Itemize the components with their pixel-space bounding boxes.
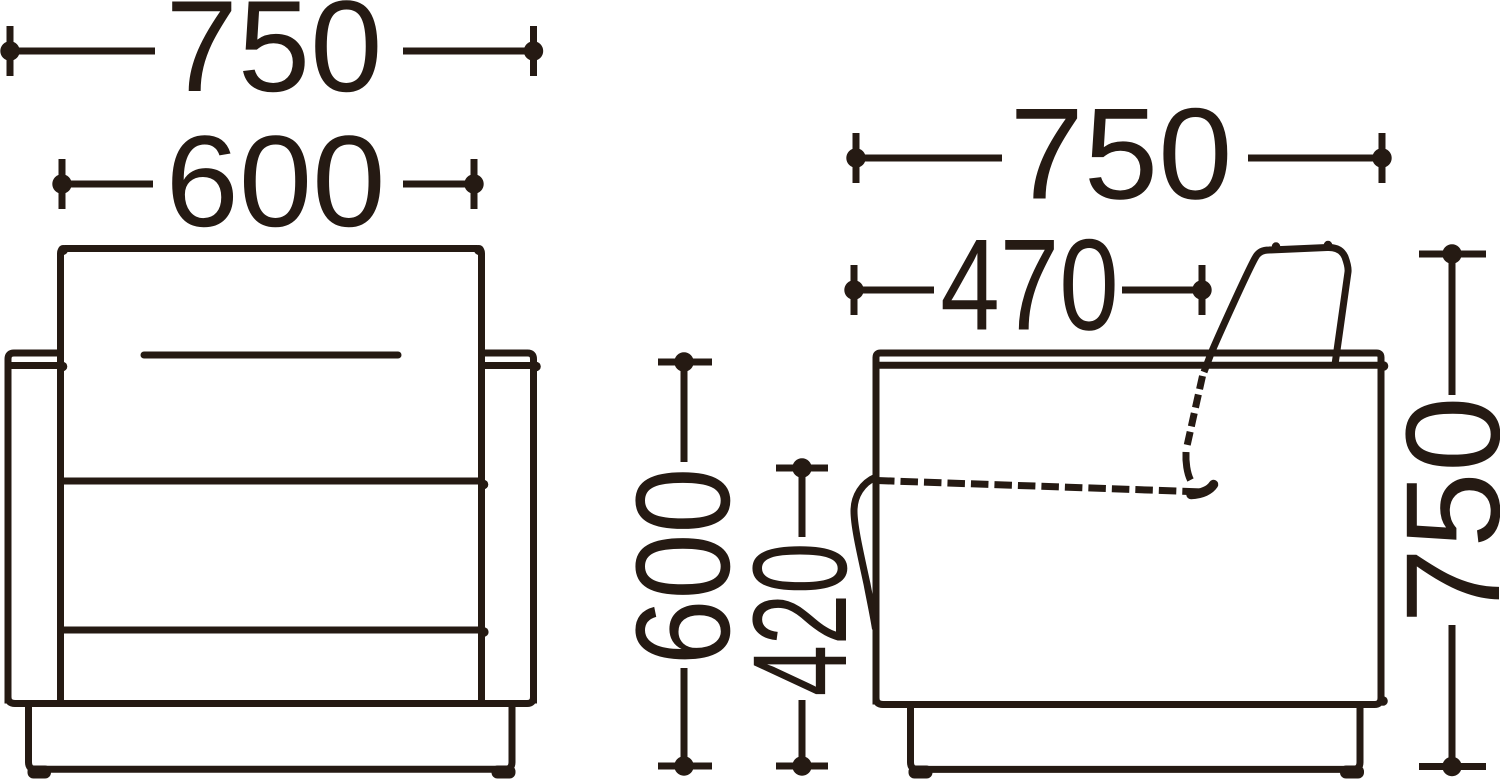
- dimension line 470: right tick: [1199, 265, 1206, 315]
- dimension line 750 side: right tick: [1379, 133, 1386, 183]
- side view body outline: [876, 353, 1381, 705]
- front view front rail line: [61, 627, 482, 634]
- front view backrest corner dot left: [58, 245, 68, 255]
- front view right armrest lower line: [482, 362, 534, 369]
- dimension line 600: left dot: [52, 174, 71, 193]
- vertical dimension 750 height: lower segment: [1449, 625, 1456, 767]
- vertical dimension 750 overall height: top tick: [1419, 251, 1486, 258]
- dimension line 750 front: right segment: [403, 48, 534, 55]
- front view seat top line: [61, 478, 482, 485]
- dimension line 750 front overall width: left tick: [7, 26, 14, 76]
- front view backrest corner dot right: [474, 245, 484, 255]
- side view body lower top line: [877, 362, 1381, 369]
- side view cushion hidden edge dashed: [1187, 376, 1203, 446]
- dimension line 470: right segment: [1122, 287, 1202, 294]
- vertical dimension 600: upper segment: [681, 362, 688, 462]
- side view bottom line: [876, 698, 1381, 705]
- dimension line 600: left segment: [62, 181, 153, 188]
- svg-text:750: 750: [1379, 396, 1500, 623]
- dimension line 470: left segment: [854, 287, 934, 294]
- dimension line 470: right dot: [1192, 280, 1211, 299]
- dimension line 750 side depth: left tick: [853, 133, 860, 183]
- svg-text:470: 470: [940, 212, 1119, 358]
- dimension line 750 side: right dot: [1372, 148, 1391, 167]
- vertical dimension 750 height: top dot: [1442, 244, 1461, 263]
- dimension line 470 seat depth: left tick: [851, 265, 858, 315]
- vertical dimension 420: top dot: [792, 458, 811, 477]
- front view front rail end dot: [479, 627, 489, 637]
- front view left armrest lower line end dot: [58, 362, 68, 372]
- vertical dimension 750 height: bottom dot: [1442, 757, 1461, 776]
- vertical dimension 600: top dot: [674, 352, 693, 371]
- dimension line 750 side: left segment: [856, 155, 1002, 162]
- dimension line 750 side: left dot: [846, 148, 865, 167]
- front view right armrest outer edge with rounded top corner: [482, 353, 534, 704]
- vertical dimension 420: bottom tick: [776, 763, 828, 770]
- side view cushion top-right joint dot: [1324, 241, 1332, 249]
- dimension line 600: right tick: [471, 159, 478, 209]
- vertical dimension 420: lower segment: [799, 700, 806, 766]
- front view seat line end dot: [479, 480, 489, 490]
- side view body lower top line end dot: [1379, 361, 1389, 371]
- dimension line 750 side: right segment: [1248, 155, 1382, 162]
- dimension line 470: left dot: [844, 280, 863, 299]
- front view backrest stitch line: [144, 352, 398, 359]
- front view left armrest lower line: [8, 362, 60, 369]
- side view body left edge lower part: [873, 477, 880, 705]
- dimension line 600: right dot: [464, 174, 483, 193]
- dimension line 750 front: left dot: [0, 41, 19, 60]
- side view cushion hidden edge bottom curve dash: [1186, 452, 1191, 480]
- side view bottom line right corner dot: [1378, 696, 1388, 706]
- svg-text:750: 750: [1010, 81, 1233, 227]
- front view backrest outline: [61, 249, 482, 704]
- side view backrest cushion outline: [1204, 247, 1348, 372]
- dimension line 600: right segment: [403, 181, 474, 188]
- front view left foot: [28, 766, 52, 779]
- dimension line 750 front: right tick: [530, 26, 537, 76]
- vertical dimension 750 height: bottom tick: [1419, 763, 1486, 770]
- side view cushion top-left joint dot: [1272, 242, 1280, 250]
- vertical dimension 750 height: upper segment: [1449, 254, 1456, 395]
- side view seat/cushion junction hook: [1191, 485, 1214, 495]
- svg-text:750: 750: [166, 0, 383, 119]
- side view seat hidden line dashed: [877, 481, 1205, 493]
- front view bottom line: [8, 697, 534, 704]
- vertical dimension 600 arm height: top tick: [658, 359, 712, 366]
- dimension line 600 seat width: left tick: [59, 159, 66, 209]
- vertical dimension 420 seat height: top tick: [776, 465, 828, 472]
- svg-text:420: 420: [726, 543, 875, 697]
- dimension line 750 front: right dot: [524, 41, 543, 60]
- side view plinth: [911, 705, 1361, 770]
- front view right armrest lower line overshoot dot: [531, 362, 541, 372]
- front view plinth: [29, 704, 513, 770]
- side view left foot: [909, 766, 933, 779]
- vertical dimension 600: bottom dot: [674, 756, 693, 775]
- svg-text:600: 600: [166, 108, 386, 254]
- vertical dimension 420: upper segment: [799, 468, 806, 537]
- vertical dimension 420: bottom dot: [792, 756, 811, 775]
- front view right foot: [492, 766, 516, 779]
- side view right foot: [1340, 766, 1364, 779]
- vertical dimension 600: lower segment: [681, 668, 688, 766]
- side view armrest front curve: [854, 477, 876, 629]
- dimension line 750 front: left segment: [10, 48, 155, 55]
- front view left armrest outer edge with rounded top corner: [8, 353, 61, 704]
- vertical dimension 600: bottom tick: [658, 763, 712, 770]
